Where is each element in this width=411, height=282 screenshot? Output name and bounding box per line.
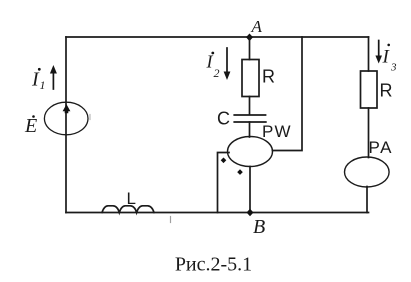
label I1: [31, 68, 46, 92]
stray mark right of source E: [89, 115, 91, 120]
svg-text:C: C: [217, 109, 230, 129]
wire: bottom horizontal rail: [66, 212, 369, 214]
svg-text:E: E: [24, 115, 37, 137]
svg-text:I: I: [206, 52, 214, 72]
wire: left vertical branch: [65, 37, 67, 213]
current arrow I2 (down): [224, 48, 231, 80]
svg-text:PA: PA: [369, 138, 393, 157]
wire: resistor to capacitor: [249, 97, 251, 115]
wire: resistor R3 to ammeter PA: [368, 108, 370, 158]
wattmeter PW (circle): [228, 137, 273, 167]
inductor L: [102, 206, 154, 213]
source E (circle): [44, 102, 88, 135]
stray mark near inductor: [170, 217, 172, 223]
svg-text:Рис.2-5.1: Рис.2-5.1: [175, 254, 252, 276]
PW polarity dot 1: [221, 158, 227, 164]
resistor R (middle branch): [242, 60, 259, 97]
svg-text:3: 3: [390, 62, 397, 74]
wire: PW left terminal down to bottom rail: [218, 153, 230, 213]
svg-text:A: A: [251, 17, 263, 36]
wire: PW bottom to node B: [249, 167, 251, 213]
svg-text:PW: PW: [262, 122, 292, 141]
source E internal arrow (emf direction, up): [63, 104, 71, 113]
wire: capacitor to wattmeter: [249, 122, 251, 137]
node B junction dot: [247, 209, 254, 217]
label E (dotted): [24, 115, 37, 137]
PW polarity dot 2: [237, 169, 243, 175]
current arrow I1 (up): [50, 65, 57, 89]
label I3: [382, 44, 398, 74]
current arrow I3 (down): [375, 41, 382, 64]
label I2: [206, 52, 220, 81]
wire: PW right terminal up to top rail: [273, 37, 303, 151]
capacitor C plates: [234, 115, 265, 122]
wire: right vertical, top rail to resistor R3: [368, 37, 370, 71]
svg-text:R: R: [380, 81, 393, 101]
wire: ammeter PA to bottom rail: [366, 187, 368, 213]
svg-text:L: L: [127, 189, 136, 208]
node A junction dot: [246, 34, 253, 42]
svg-text:R: R: [262, 67, 275, 87]
svg-text:2: 2: [214, 66, 220, 80]
svg-text:1: 1: [40, 78, 46, 92]
wire: node A down to resistor R2: [249, 37, 251, 60]
ammeter PA (circle): [345, 157, 390, 187]
svg-text:B: B: [253, 216, 265, 238]
wire: top horizontal A-rail: [66, 36, 369, 38]
svg-text:I: I: [382, 47, 391, 68]
resistor R (right branch): [361, 71, 378, 108]
